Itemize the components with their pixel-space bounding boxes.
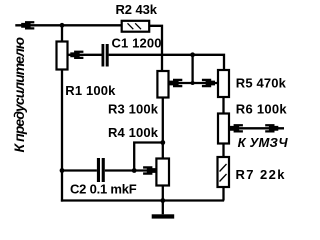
wire R5 bottom to R6 top bbox=[222, 97, 224, 114]
wire double-arrow span R3 to R5 bbox=[169, 82, 218, 84]
capacitor C1 plates bbox=[102, 44, 105, 67]
svg-text:R4 100k: R4 100k bbox=[108, 125, 159, 140]
wire R7 bottom bbox=[222, 187, 224, 201]
svg-text:R3 100k: R3 100k bbox=[108, 101, 159, 116]
wire R4 wiper loop bbox=[134, 143, 163, 171]
wire R1 wiper to C1 bbox=[67, 54, 102, 56]
wire top horizontal input bbox=[15, 24, 121, 26]
wire bottom ground bus bbox=[61, 199, 224, 201]
wire node to wiper junction vertical bbox=[191, 55, 193, 83]
wire R1 top bbox=[61, 25, 63, 41]
resistor R7 bbox=[218, 157, 230, 187]
junction node top of R1 bbox=[60, 23, 65, 28]
resistor R6 (potentiometer) bbox=[218, 114, 229, 144]
resistor R4 (potentiometer) bbox=[156, 159, 169, 186]
svg-text:К УМЗЧ: К УМЗЧ bbox=[238, 135, 289, 150]
junction node C2 left bbox=[60, 168, 65, 173]
wire ground stub bbox=[162, 201, 164, 215]
R2 power-rating hatch marks bbox=[128, 23, 134, 29]
svg-text:R5 470k: R5 470k bbox=[236, 76, 287, 91]
arrowhead R3 wiper (left of double arrow) bbox=[169, 79, 182, 87]
resistor R5 (potentiometer) bbox=[218, 70, 229, 97]
svg-text:R7 22k: R7 22k bbox=[236, 167, 286, 182]
arrowhead R1 wiper bbox=[70, 51, 83, 59]
wire R6 bottom to R7 top bbox=[222, 144, 224, 158]
arrowhead R4 wiper bbox=[143, 166, 156, 174]
wire C2 right to R4 wiper bbox=[105, 169, 147, 171]
arrowhead R5 wiper (right of double arrow) bbox=[202, 79, 215, 87]
wire C2 left bbox=[62, 169, 97, 171]
junction node mid wire bbox=[190, 52, 195, 57]
resistor R3 (potentiometer) bbox=[157, 71, 168, 98]
resistor R1 (potentiometer) bbox=[57, 42, 68, 70]
capacitor C2 plates bbox=[97, 158, 100, 182]
svg-text:К предусилителю: К предусилителю bbox=[11, 37, 27, 153]
ground bbox=[152, 214, 175, 218]
junction node ground bbox=[160, 198, 165, 203]
svg-text:C2 0.1 mkF: C2 0.1 mkF bbox=[70, 182, 137, 197]
resistor R2 bbox=[122, 21, 150, 32]
svg-text:R1 100k: R1 100k bbox=[65, 83, 116, 98]
arrowhead R6 wiper (left head) bbox=[230, 124, 243, 132]
arrowhead output to power amp (right head) bbox=[265, 124, 278, 132]
svg-text:R6 100k: R6 100k bbox=[236, 101, 288, 116]
wire mid horizontal C1 to R5 top corner bbox=[109, 55, 224, 70]
wire R3 bottom to R4 top bbox=[162, 98, 164, 159]
svg-text:C1 1200: C1 1200 bbox=[112, 35, 162, 50]
junction node wiper tie bbox=[191, 81, 195, 85]
wire R2 right to vertical down to R3 top bbox=[149, 26, 162, 71]
R7 power-rating hatch marks bbox=[220, 164, 227, 172]
junction node R3-R4 wiper tap bbox=[160, 140, 165, 145]
svg-text:R2 43k: R2 43k bbox=[116, 2, 158, 17]
wire R1 bottom down left column bbox=[61, 70, 63, 202]
wire R6 wiper out bbox=[229, 127, 284, 129]
junction node C2 right / R4 wiper bbox=[132, 168, 137, 173]
arrowhead output to preamp (left) bbox=[21, 21, 34, 29]
wire R4 bottom bbox=[162, 186, 164, 201]
